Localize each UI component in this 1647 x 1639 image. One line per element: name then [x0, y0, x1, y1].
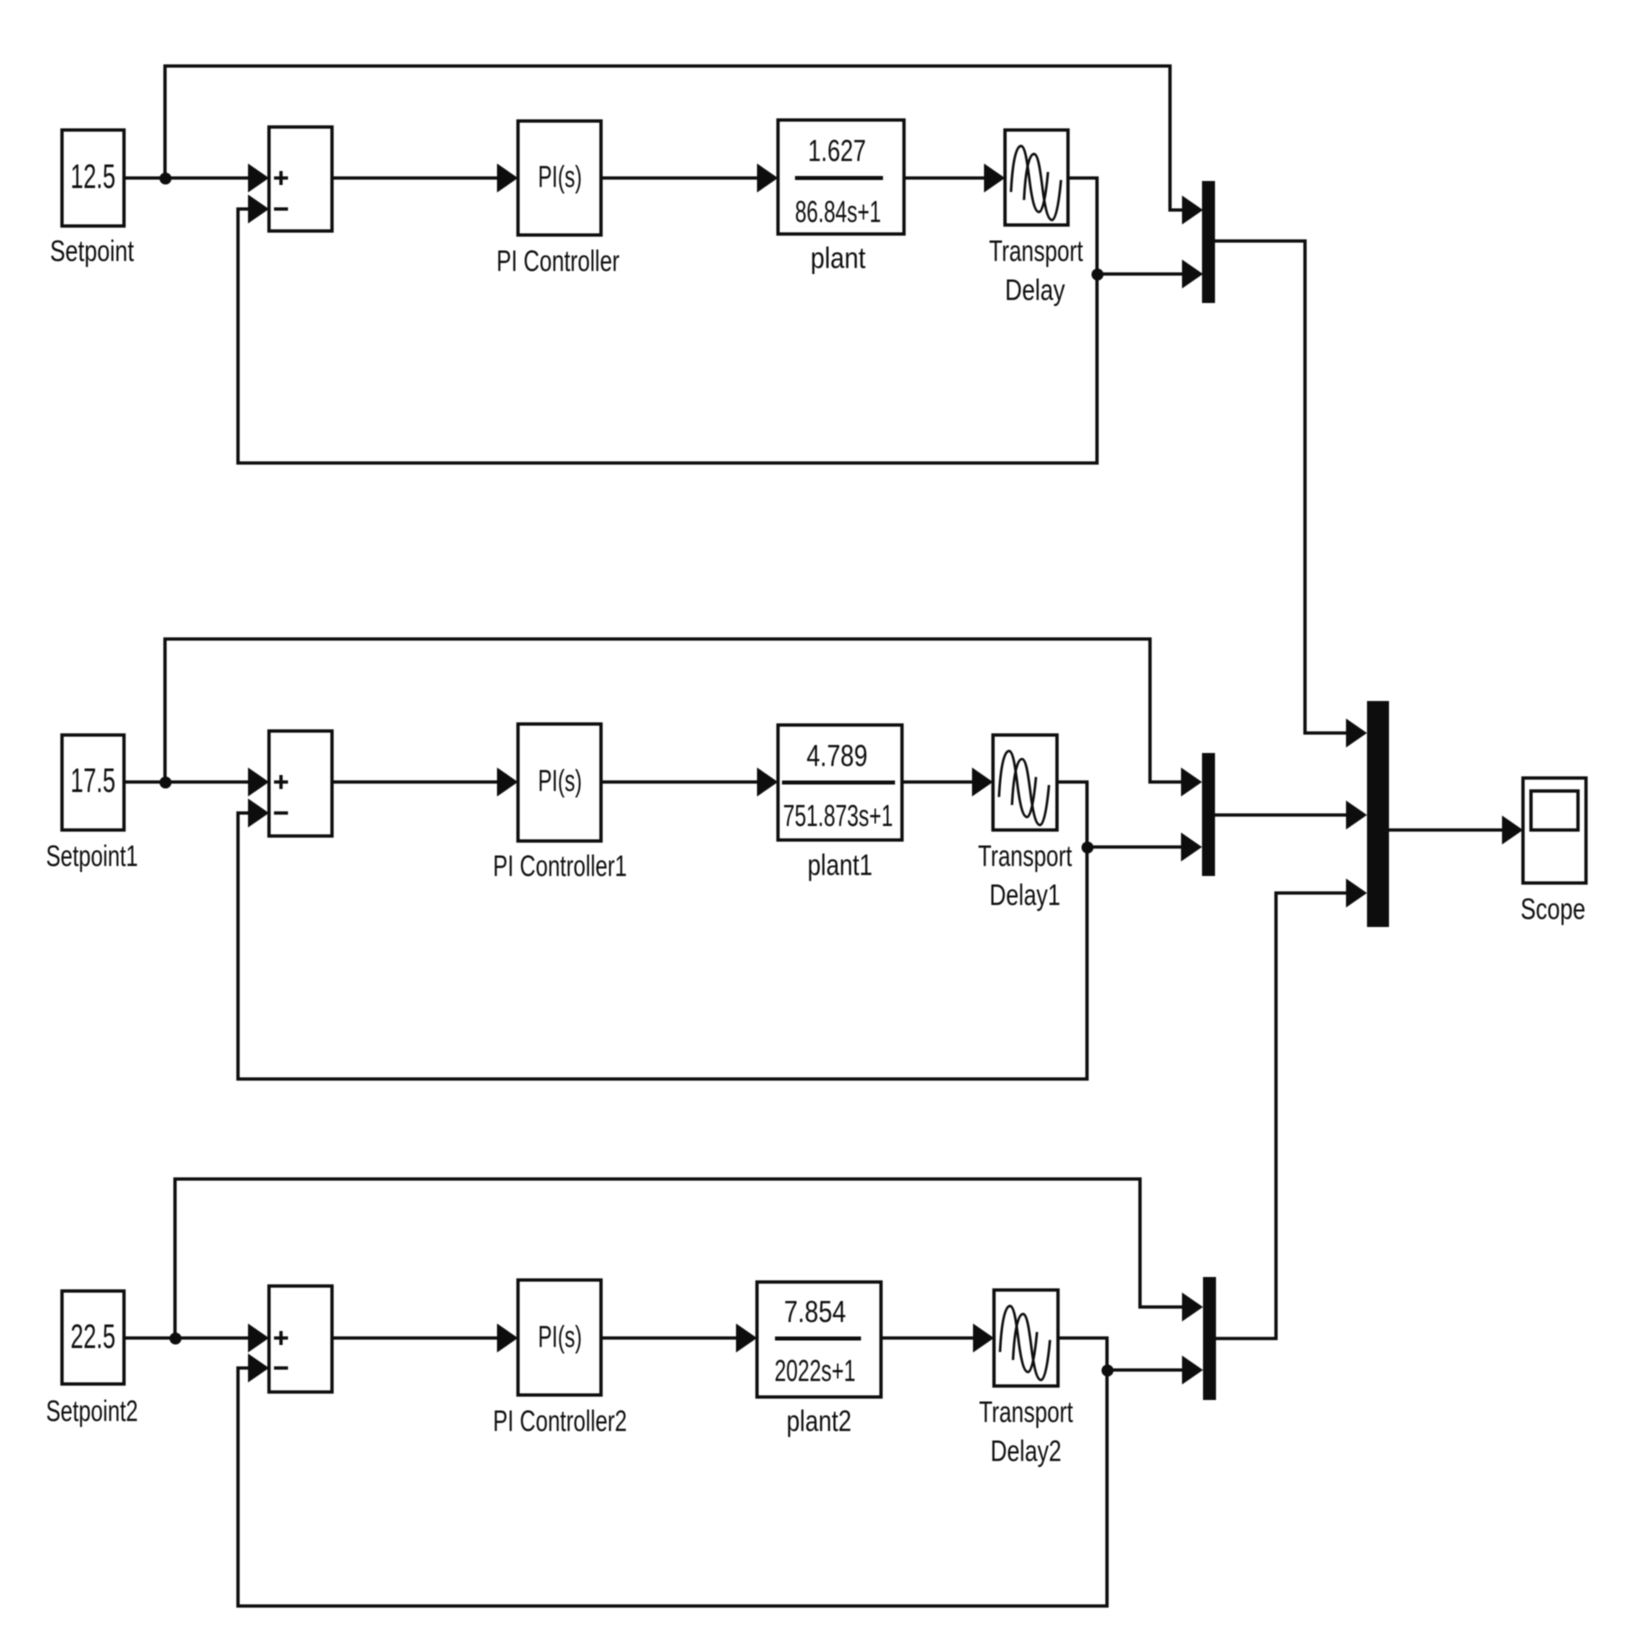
minus sign	[274, 811, 288, 814]
numerator 1.627	[808, 133, 866, 168]
numerator 7.854	[784, 1294, 846, 1329]
block Transport Delay2	[994, 1290, 1058, 1386]
svg-text:22.5: 22.5	[71, 1318, 116, 1356]
wire PI Controller to plant	[601, 176, 760, 179]
wire Mux1 to big Mux in1	[1215, 241, 1349, 733]
label plant1	[808, 849, 873, 882]
wire Sum3 to PI Controller2	[332, 1336, 500, 1339]
svg-text:7.854: 7.854	[784, 1294, 846, 1329]
svg-text:PI(s): PI(s)	[538, 159, 582, 194]
svg-text:751.873s+1: 751.873s+1	[783, 798, 893, 833]
arrowhead into Mux3 in1	[1182, 1293, 1203, 1322]
wire big Mux to Scope	[1389, 828, 1505, 831]
arrowhead into big Mux in2	[1346, 801, 1367, 830]
arrowhead into Sum2 minus	[248, 799, 269, 828]
wire Transport Delay to junction and Mux1 in2	[1068, 178, 1185, 274]
wire feedback loop1	[238, 209, 1097, 463]
arrowhead into Mux1 in2	[1182, 260, 1203, 289]
block Transport Delay1	[993, 735, 1057, 830]
svg-text:Setpoint1: Setpoint1	[46, 840, 138, 873]
wire plant to Transport Delay	[904, 176, 987, 179]
arrowhead into Sum3 minus	[248, 1354, 269, 1383]
wire setpoint2 branch to Mux3 top	[175, 1179, 1186, 1338]
mux Mux1	[1202, 181, 1215, 303]
svg-text:Setpoint: Setpoint	[50, 235, 134, 268]
denominator 86.84s+1	[795, 194, 881, 229]
block Setpoint1 (constant 17.5)	[62, 735, 124, 830]
svg-text:4.789: 4.789	[807, 738, 868, 773]
fraction bar	[782, 781, 895, 785]
value label 22.5	[71, 1318, 116, 1356]
block PI Controller2	[518, 1280, 601, 1395]
label Setpoint	[50, 235, 134, 268]
label Transport Delay	[989, 235, 1083, 307]
svg-text:PI Controller1: PI Controller1	[493, 850, 627, 883]
arrowhead into Transport Delay	[984, 164, 1005, 193]
svg-text:12.5: 12.5	[71, 158, 116, 196]
svg-text:2022s+1: 2022s+1	[775, 1353, 856, 1388]
wire feedback loop2	[238, 813, 1087, 1079]
wire setpoint branch to Mux top	[165, 66, 1186, 210]
label Setpoint2	[46, 1395, 138, 1428]
arrowhead into Mux in1	[1182, 196, 1203, 225]
mux Mux3	[1203, 1277, 1216, 1400]
plus sign	[274, 171, 288, 185]
block plant (1.627/86.84s+1)	[778, 120, 904, 234]
arrowhead into Transport Delay1	[972, 768, 993, 797]
svg-text:Transport: Transport	[989, 235, 1083, 268]
arrowhead into Mux3 in2	[1182, 1356, 1203, 1385]
label PI Controller	[497, 245, 620, 278]
svg-text:17.5: 17.5	[71, 762, 116, 800]
svg-text:1.627: 1.627	[808, 133, 866, 168]
svg-text:plant1: plant1	[808, 849, 873, 882]
minus sign	[274, 207, 288, 210]
wire Transport Delay2 to junction and Mux3 in2	[1058, 1338, 1185, 1370]
wire Mux3 to big Mux in3	[1216, 893, 1349, 1339]
node junction J5	[170, 1333, 182, 1345]
wire Sum1 to PI Controller	[332, 176, 500, 179]
plus sign	[274, 775, 288, 789]
wire Mux2 to big Mux in2	[1215, 813, 1349, 816]
block PI Controller1	[518, 724, 601, 841]
mux Mux2	[1202, 753, 1215, 876]
arrowhead into PI Controller1	[497, 768, 518, 797]
svg-text:Transport: Transport	[978, 840, 1072, 873]
wire PI Controller1 to plant1	[601, 780, 760, 783]
sum block Sum2	[269, 731, 332, 836]
node junction J6	[1102, 1365, 1114, 1377]
value label 17.5	[71, 762, 116, 800]
text PI(s)	[538, 1319, 582, 1354]
sum block Sum1	[269, 127, 332, 231]
svg-text:Transport: Transport	[979, 1396, 1073, 1429]
numerator 4.789	[807, 738, 868, 773]
arrowhead into Mux2 in1	[1181, 768, 1202, 797]
denominator 2022s+1	[775, 1353, 856, 1388]
label Setpoint1	[46, 840, 138, 873]
wire setpoint1 branch to Mux2 top	[165, 639, 1184, 782]
arrowhead into Sum3 plus	[248, 1324, 269, 1353]
arrowhead into Sum2 plus	[248, 768, 269, 797]
node junction J4	[1082, 842, 1094, 854]
wire Setpoint2 to Sum3	[124, 1336, 250, 1339]
wire feedback loop3	[238, 1368, 1107, 1606]
minus sign	[274, 1366, 288, 1369]
label Transport Delay1	[978, 840, 1072, 912]
block Setpoint (constant 12.5)	[62, 130, 124, 226]
block Scope	[1523, 778, 1586, 883]
label PI Controller1	[493, 850, 627, 883]
svg-text:Setpoint2: Setpoint2	[46, 1395, 138, 1428]
mux big Mux	[1367, 701, 1389, 927]
svg-text:PI Controller2: PI Controller2	[493, 1405, 627, 1438]
wire plant2 to Transport Delay2	[881, 1336, 976, 1339]
icon sine curves	[1000, 1306, 1050, 1380]
svg-text:Delay: Delay	[1005, 274, 1065, 307]
label Transport Delay2	[979, 1396, 1073, 1468]
arrowhead into plant2	[736, 1324, 757, 1353]
svg-text:PI(s): PI(s)	[538, 1319, 582, 1354]
wire PI Controller2 to plant2	[601, 1336, 739, 1339]
svg-text:PI(s): PI(s)	[538, 763, 582, 798]
plus sign	[274, 1331, 288, 1345]
node junction J2	[1092, 269, 1104, 281]
arrowhead into PI Controller	[497, 164, 518, 193]
denominator 751.873s+1	[783, 798, 893, 833]
scope screen	[1531, 791, 1578, 830]
label plant2	[787, 1405, 852, 1438]
svg-text:PI Controller: PI Controller	[497, 245, 620, 278]
node junction J1	[160, 173, 172, 185]
svg-text:plant: plant	[811, 242, 867, 275]
node junction J3	[160, 777, 172, 789]
block PI Controller	[518, 121, 601, 235]
arrowhead into big Mux in3	[1346, 879, 1367, 908]
icon sine curves	[999, 751, 1049, 825]
fraction bar	[795, 176, 883, 180]
arrowhead into plant1	[757, 768, 778, 797]
icon sine curves	[1011, 146, 1061, 220]
label plant	[811, 242, 867, 275]
svg-text:86.84s+1: 86.84s+1	[795, 194, 881, 229]
block Setpoint2 (constant 22.5)	[62, 1291, 124, 1384]
sum block Sum3	[269, 1286, 332, 1392]
arrowhead into Sum1 minus	[248, 195, 269, 224]
wire Setpoint to Sum	[124, 176, 250, 179]
svg-text:Delay1: Delay1	[990, 879, 1061, 912]
arrowhead into Scope	[1502, 816, 1523, 845]
wire plant1 to Transport Delay1	[902, 780, 975, 783]
arrowhead into plant	[757, 164, 778, 193]
block plant2 (7.854/2022s+1)	[757, 1282, 881, 1397]
label Scope	[1521, 893, 1586, 926]
svg-text:Scope: Scope	[1521, 893, 1586, 926]
block plant1 (4.789/751.873s+1)	[778, 725, 902, 840]
fraction bar	[775, 1337, 861, 1341]
text PI(s)	[538, 159, 582, 194]
arrowhead into Sum plus	[248, 164, 269, 193]
svg-text:plant2: plant2	[787, 1405, 852, 1438]
arrowhead into big Mux in1	[1346, 719, 1367, 748]
wire Sum2 to PI Controller1	[332, 780, 500, 783]
svg-text:Delay2: Delay2	[991, 1435, 1062, 1468]
value label 12.5	[71, 158, 116, 196]
text PI(s)	[538, 763, 582, 798]
arrowhead into PI Controller2	[497, 1324, 518, 1353]
block Transport Delay	[1005, 130, 1068, 225]
label PI Controller2	[493, 1405, 627, 1438]
arrowhead into Transport Delay2	[973, 1324, 994, 1353]
wire Setpoint1 to Sum2	[124, 780, 250, 783]
arrowhead into Mux2 in2	[1181, 833, 1202, 862]
wire Transport Delay1 to junction and Mux2 in2	[1057, 782, 1184, 847]
